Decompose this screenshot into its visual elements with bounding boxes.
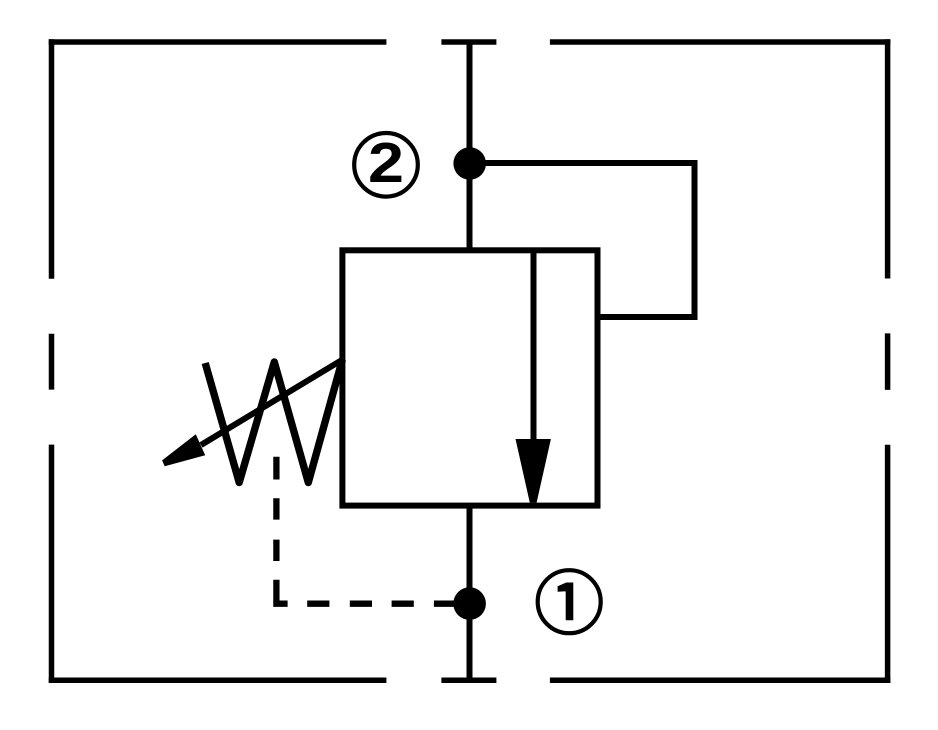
adjustable spring bbox=[205, 360, 342, 483]
wire: pilot passage from node 2 around to valve right side bbox=[470, 163, 695, 317]
port label 2 circle bbox=[354, 133, 418, 197]
flow path arrow shaft inside valve body bbox=[531, 250, 537, 441]
wire: port 1 line from valve body to bottom border bbox=[467, 506, 473, 681]
port label 1 text bbox=[558, 583, 574, 621]
valve envelope top border bbox=[49, 39, 891, 45]
valve envelope bottom border bbox=[49, 678, 891, 684]
node 1 junction dot bbox=[453, 587, 486, 620]
dashed pilot line from node 1 up to spring bbox=[276, 457, 456, 604]
port label 1 circle bbox=[538, 570, 601, 633]
valve body box U1 bbox=[342, 250, 597, 505]
node 2 junction dot bbox=[453, 147, 486, 180]
flow path arrowhead bbox=[516, 439, 551, 503]
valve envelope left border bbox=[49, 39, 55, 683]
adjustment arrowhead bbox=[162, 434, 205, 466]
valve envelope right border bbox=[885, 39, 891, 683]
svg-text:2: 2 bbox=[368, 130, 404, 194]
wire: port 2 line from top border to valve body bbox=[467, 42, 473, 250]
adjustment arrow shaft bbox=[201, 359, 343, 445]
